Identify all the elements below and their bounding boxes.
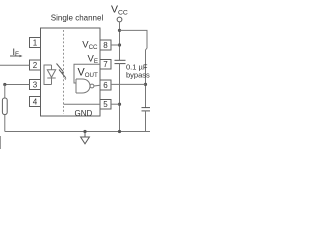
svg-text:GND: GND xyxy=(75,109,93,118)
junction pin8 wire xyxy=(118,43,121,46)
svg-text:6: 6 xyxy=(103,81,108,90)
capacitor C1 bottom plate xyxy=(115,63,126,65)
capacitor C1 top plate xyxy=(115,59,126,61)
wire input to pin 2 xyxy=(0,64,30,66)
node junction at pin3 wire xyxy=(3,83,6,86)
wire pin 5 to node xyxy=(111,103,120,105)
wire cap to pin5 node and rail xyxy=(119,64,121,132)
junction cap lead at rail xyxy=(118,130,121,133)
junction at ground xyxy=(83,130,86,133)
wire resistor to bottom rail xyxy=(4,115,6,132)
IF arrow xyxy=(10,55,23,57)
svg-text:bypass: bypass xyxy=(126,71,150,80)
svg-text:2: 2 xyxy=(33,61,38,70)
pin 1 xyxy=(30,38,41,48)
wire node down to resistor xyxy=(4,85,6,99)
wire internal GND to pin 5 xyxy=(64,103,101,105)
LED D1 frame xyxy=(44,65,56,85)
pin 5 xyxy=(100,100,111,110)
wire pin 8 to VCC rail xyxy=(111,44,120,46)
svg-text:7: 7 xyxy=(103,60,108,69)
pin 4 xyxy=(30,97,41,107)
junction pin5 wire xyxy=(118,103,121,106)
isolation barrier (dashed) xyxy=(63,30,65,114)
edge stub bottom left xyxy=(0,136,2,149)
light emission arrows xyxy=(57,64,67,80)
pin 6 xyxy=(100,80,111,90)
wire branch right from VCC xyxy=(120,30,148,107)
wire VE elbow from pin 7 to gate input xyxy=(74,64,100,83)
VCC terminal circle xyxy=(117,17,122,22)
resistor R1 xyxy=(2,98,7,115)
svg-text:3: 3 xyxy=(33,81,38,90)
svg-text:Single channel: Single channel xyxy=(51,14,104,23)
junction to right branch xyxy=(118,29,121,32)
wire pin 6 to branch xyxy=(111,83,146,85)
wire C2 to rail xyxy=(145,111,147,132)
bottom rail wire xyxy=(5,131,150,133)
LED D1 cathode bar xyxy=(47,77,55,79)
pin 2 xyxy=(30,60,41,70)
pin 8 xyxy=(100,40,111,50)
capacitor C2 bottom plate xyxy=(142,110,151,112)
svg-text:1: 1 xyxy=(33,39,38,48)
svg-text:8: 8 xyxy=(103,41,108,50)
capacitor C2 top plate xyxy=(142,107,151,109)
junction pin6 wire at branch xyxy=(144,83,147,86)
IC U1 body xyxy=(41,28,101,116)
svg-text:5: 5 xyxy=(103,100,108,109)
pin 7 xyxy=(100,60,111,70)
LED D1 triangle xyxy=(47,70,55,78)
wire node to pin 3 xyxy=(5,84,30,86)
svg-text:4: 4 xyxy=(33,98,38,107)
pin 3 xyxy=(30,80,41,90)
op-amp U1 output gate xyxy=(76,79,100,93)
ground xyxy=(81,132,90,144)
wire VCC down xyxy=(119,22,121,60)
wire gate output to pin 6 xyxy=(94,84,100,87)
